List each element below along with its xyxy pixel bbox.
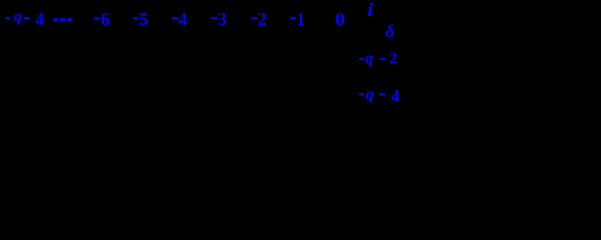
row label -q-2: minus [359, 58, 365, 60]
column label -3: digit 3 [218, 10, 227, 28]
row label -q-2: letter q [365, 51, 373, 67]
column label -6: digit 6 [101, 10, 110, 28]
column label -4: digit 4 [178, 10, 187, 28]
row label -q-2: second minus [380, 58, 386, 60]
axis label i [367, 1, 373, 20]
axis label delta [385, 22, 394, 40]
column label -1: digit 1 [297, 10, 305, 28]
column label 0 [335, 10, 345, 28]
column label -6: minus [94, 17, 100, 19]
column label -2: minus [251, 17, 257, 19]
row label -q-4: letter q [366, 87, 374, 103]
label "-q-4" (top-left): letter q [14, 9, 22, 25]
column label -1: minus [290, 17, 296, 19]
label "-q-4" (top-left column header): minus [5, 17, 11, 19]
label "-q-4" (top-left): second minus [24, 17, 30, 19]
column label -3: minus [211, 17, 217, 19]
column label -4: minus [172, 17, 178, 19]
ellipsis dot 1 [53, 18, 57, 21]
column label -5: digit 5 [139, 10, 148, 28]
row label -q-2: digit 2 [389, 51, 397, 67]
column label -2: digit 2 [258, 10, 267, 28]
column label -5: minus [133, 17, 139, 19]
row label -q-4: digit 4 [391, 88, 400, 106]
ellipsis dot 2 [60, 18, 64, 21]
ellipsis dot 3 [67, 18, 71, 21]
row label -q-4: minus [359, 93, 365, 95]
row label -q-4: second minus [379, 93, 385, 95]
label "-q-4" (top-left): digit 4 [35, 10, 44, 28]
